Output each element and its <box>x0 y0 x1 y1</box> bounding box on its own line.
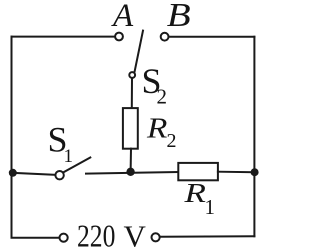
label: resistor R1 designator <box>183 178 215 219</box>
wire: left vertical side <box>11 37 13 237</box>
svg-text:220: 220 <box>77 219 115 248</box>
terminal A (open circle) <box>115 33 123 41</box>
switch S1 blade (open) <box>64 158 91 173</box>
value label: 220 V supply <box>77 219 147 248</box>
svg-text:A: A <box>111 0 134 34</box>
wire: bottom side, right part to supply terminal <box>161 235 255 238</box>
terminal: supply left (open circle) <box>60 234 68 242</box>
svg-text:2: 2 <box>157 85 168 109</box>
label: switch S1 designator <box>48 119 74 167</box>
wire: bottom side, left part from supply terminal <box>12 237 60 239</box>
junction: left node on middle branch <box>9 169 17 177</box>
svg-text:B: B <box>167 0 191 33</box>
junction: right node on middle branch <box>251 168 259 176</box>
svg-text:1: 1 <box>205 195 216 219</box>
svg-text:V: V <box>124 219 147 248</box>
wire: top side, left part to terminal A <box>12 36 115 38</box>
svg-text:1: 1 <box>64 146 74 167</box>
label: resistor R2 designator <box>146 112 177 152</box>
svg-text:2: 2 <box>167 130 177 152</box>
wire: resistor R1 to right side <box>218 171 255 174</box>
svg-text:R: R <box>183 178 206 208</box>
svg-text:R: R <box>146 112 167 144</box>
resistor R1 (box) <box>178 163 218 180</box>
wire: right vertical side <box>253 37 255 237</box>
resistor R2 (box) <box>123 108 138 149</box>
label: switch S2 designator <box>142 61 168 109</box>
terminal B (open circle) <box>161 33 169 41</box>
wire: middle branch from S1 gap to resistor R1 <box>86 172 178 174</box>
junction: middle node (R2 / middle branch) <box>126 168 134 176</box>
terminal: supply right (open circle) <box>152 233 160 241</box>
wire: middle branch, left wire to switch S1 <box>12 173 56 175</box>
switch S2 pivot terminal (open circle) <box>129 72 135 78</box>
switch S2 blade (open) <box>135 31 143 72</box>
switch S1 pivot terminal (open circle) <box>55 171 63 179</box>
wire: S2 pivot down to resistor R2 <box>131 78 133 107</box>
wire: resistor R2 down to middle junction <box>130 149 132 173</box>
wire: top side, right part from terminal B <box>169 36 255 38</box>
